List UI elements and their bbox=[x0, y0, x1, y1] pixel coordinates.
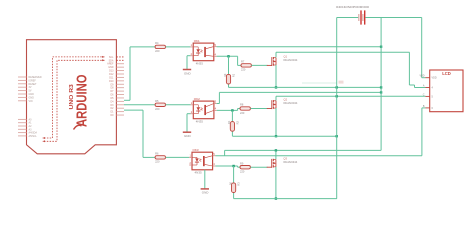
svg-text:1K: 1K bbox=[227, 121, 231, 124]
LCD U2 bbox=[419, 70, 463, 112]
junction pin5 rail V- bbox=[380, 46, 382, 48]
optocoupler OK1 bbox=[190, 39, 216, 66]
wire OK1 pin2 bbox=[187, 55, 190, 57]
wire stage2 bottom rail bbox=[232, 135, 336, 137]
svg-text:OK2: OK2 bbox=[194, 97, 200, 101]
svg-text:R5: R5 bbox=[155, 99, 159, 103]
wire to R7 bbox=[238, 64, 241, 66]
wire jog down stage1 bbox=[237, 56, 239, 65]
svg-text:R2: R2 bbox=[236, 120, 240, 124]
wire OK2 pin5 rail bbox=[219, 91, 381, 93]
Arduino Uno R3 U1 board outline bbox=[27, 40, 117, 154]
svg-text:Q2: Q2 bbox=[284, 98, 288, 102]
svg-text:VDD: VDD bbox=[432, 77, 437, 80]
svg-text:R3: R3 bbox=[237, 182, 241, 186]
label UNO R3 bbox=[69, 84, 75, 110]
wire stage1 bottom rail bbox=[229, 86, 382, 88]
wire pin5 hook up bbox=[218, 92, 220, 103]
svg-text:OK1: OK1 bbox=[194, 39, 200, 43]
transistor Q2 Q2 bbox=[267, 98, 298, 110]
wire to R6 bbox=[143, 156, 155, 158]
wire OK2 pin2 bbox=[187, 113, 191, 115]
resistor R2 1K bbox=[227, 120, 239, 131]
wire R9 to Q3 gate bbox=[250, 166, 267, 168]
wire battery- rail bbox=[225, 149, 382, 151]
wire OK2 pin4 bbox=[217, 109, 238, 111]
Arduino left power pins bbox=[18, 76, 42, 103]
wire OK3 pin5 rail bbox=[215, 155, 422, 157]
wire Q2 source down bbox=[275, 108, 277, 136]
junction Q1 source bbox=[275, 86, 277, 88]
svg-text:OK3: OK3 bbox=[193, 148, 199, 152]
svg-text:04D40N0P00R000: 04D40N0P00R000 bbox=[336, 5, 369, 9]
wire battery- bus vertical bbox=[380, 18, 382, 151]
ground GND2 bbox=[183, 114, 192, 138]
svg-text:GND: GND bbox=[202, 191, 210, 195]
svg-text:1K: 1K bbox=[228, 182, 232, 185]
wire OK2 pin5 stub bbox=[217, 103, 220, 105]
wire D4 to riser bbox=[124, 99, 130, 101]
wire jog stage3 bbox=[237, 166, 239, 167]
svg-text:C: C bbox=[423, 93, 425, 96]
svg-text:VDD: VDD bbox=[419, 75, 424, 78]
wire R7 to Q1 gate bbox=[251, 64, 267, 66]
label ARDUINO bbox=[74, 74, 91, 127]
resistor R9 bbox=[240, 161, 250, 173]
svg-text:220: 220 bbox=[240, 111, 245, 115]
wire faint net stub bbox=[302, 81, 344, 84]
wire R8 to Q2 gate bbox=[250, 108, 267, 110]
Arduino right digital pins bbox=[107, 56, 124, 117]
svg-text:Q3: Q3 bbox=[283, 156, 287, 160]
wire Q1 source down bbox=[275, 65, 277, 88]
wire Q2 drain up bbox=[275, 96, 277, 100]
junction Q3 source bbox=[275, 197, 277, 199]
Arduino logo mark bbox=[74, 125, 82, 129]
svg-text:220: 220 bbox=[155, 49, 160, 53]
svg-text:4N35: 4N35 bbox=[195, 171, 203, 175]
svg-text:220: 220 bbox=[240, 170, 245, 174]
svg-text:R7: R7 bbox=[241, 60, 245, 64]
svg-text:R1: R1 bbox=[232, 73, 236, 77]
ground GND3 bbox=[201, 170, 210, 195]
wire R2 to rail bbox=[231, 126, 233, 136]
wire LCD pin4 loop down bbox=[422, 108, 426, 156]
wire R4 to OK1 pin1 bbox=[166, 46, 191, 48]
wire to R3 bbox=[233, 166, 235, 188]
junction Q2 source bbox=[275, 135, 277, 137]
resistor R7 bbox=[241, 60, 251, 72]
svg-text:220: 220 bbox=[155, 107, 160, 111]
svg-text:IRLML6344: IRLML6344 bbox=[284, 58, 298, 62]
wire to R8 bbox=[238, 108, 240, 110]
wire to R2 bbox=[231, 110, 233, 126]
junction stage1 bbox=[227, 55, 229, 57]
resistor R1 1K bbox=[223, 73, 235, 84]
ground GND1 bbox=[183, 56, 192, 76]
svg-text:GND: GND bbox=[184, 71, 192, 75]
junction stage2 rail battery+ bbox=[336, 135, 338, 137]
junction rail battery+ bbox=[336, 86, 338, 88]
transistor Q1 Q1 bbox=[267, 55, 298, 67]
wire drain rail stage2 to LCD bbox=[276, 95, 426, 97]
optocoupler OK3 bbox=[189, 148, 215, 175]
svg-text:220: 220 bbox=[241, 68, 246, 72]
wire OK1 pin5 rail bbox=[217, 46, 382, 48]
svg-text:A5/SCL: A5/SCL bbox=[29, 135, 38, 138]
svg-text:4N35: 4N35 bbox=[196, 120, 204, 124]
resistor R3 1K bbox=[228, 182, 240, 193]
battery BAT1 bbox=[336, 5, 369, 25]
junction drain rail battery+ bbox=[336, 95, 338, 97]
resistor R5 bbox=[155, 99, 165, 111]
wire R5 to OK2 pin1 bbox=[166, 104, 191, 106]
wire battery right bbox=[365, 17, 421, 19]
svg-text:1K: 1K bbox=[223, 73, 227, 76]
svg-text:IRLML6344: IRLML6344 bbox=[283, 160, 297, 164]
wire OK3 pin4 bbox=[215, 165, 237, 167]
resistor R4 bbox=[155, 41, 165, 53]
Arduino analog pins A0-A5 bbox=[18, 118, 37, 137]
resistor R8 bbox=[240, 103, 250, 115]
wire R3 to rail bbox=[233, 188, 235, 199]
wire riser stage1 bbox=[129, 47, 131, 100]
resistor R6 bbox=[155, 152, 165, 164]
svg-text:GND: GND bbox=[184, 134, 192, 138]
wire drain rail stage1 bbox=[276, 51, 410, 53]
wire to R9 bbox=[238, 166, 240, 168]
wire OK1 pin4 bbox=[217, 55, 238, 57]
wire to R1 bbox=[228, 56, 230, 79]
wire drain rail drop to LCD pin2 bbox=[409, 52, 425, 87]
junction stage3 drain rail bbox=[275, 149, 277, 151]
wire Q3 source down bbox=[275, 167, 277, 199]
wire to R4 bbox=[130, 46, 155, 48]
junction stage3 bbox=[232, 165, 234, 167]
svg-text:R9: R9 bbox=[240, 161, 244, 165]
svg-text:IRLML6344: IRLML6344 bbox=[284, 101, 298, 105]
internal SDA dashed net bbox=[43, 56, 105, 139]
svg-text:R8: R8 bbox=[240, 103, 244, 107]
svg-text:ARDUINO: ARDUINO bbox=[74, 74, 91, 127]
svg-text:VIN: VIN bbox=[29, 100, 33, 103]
node bus corner bbox=[336, 198, 338, 200]
svg-text:Q1: Q1 bbox=[284, 55, 288, 59]
junction rail battery- bbox=[380, 86, 382, 88]
wire D2 out bbox=[124, 109, 143, 111]
wire battery left bbox=[337, 17, 359, 19]
svg-text:R4: R4 bbox=[155, 41, 159, 45]
optocoupler OK2 bbox=[191, 97, 217, 124]
wire battery+ bus vertical bbox=[336, 18, 338, 199]
junction pin5 rail2 V- bbox=[380, 91, 382, 93]
internal SCL dashed net bbox=[43, 59, 105, 142]
svg-text:R6: R6 bbox=[155, 152, 159, 156]
wire D3 to R5 bbox=[124, 104, 155, 106]
wire battery- drop bbox=[224, 150, 226, 155]
junction stage2 bbox=[231, 109, 233, 111]
wire to LCD VDD bbox=[422, 18, 426, 78]
wire R1 to rail bbox=[228, 79, 230, 87]
svg-text:4N35: 4N35 bbox=[196, 62, 204, 66]
wire riser stage3 bbox=[142, 110, 144, 157]
svg-text:LCD: LCD bbox=[442, 71, 451, 76]
wire jog up stage2 bbox=[237, 109, 239, 111]
wire Q3 drain up bbox=[275, 150, 277, 159]
wire stage3 bottom rail bbox=[234, 198, 337, 200]
wire R6 to OK3 pin1 bbox=[166, 156, 190, 158]
transistor Q3 Q3 bbox=[267, 156, 298, 168]
wire Q1 drain up bbox=[275, 52, 277, 57]
svg-text:220: 220 bbox=[155, 160, 160, 164]
